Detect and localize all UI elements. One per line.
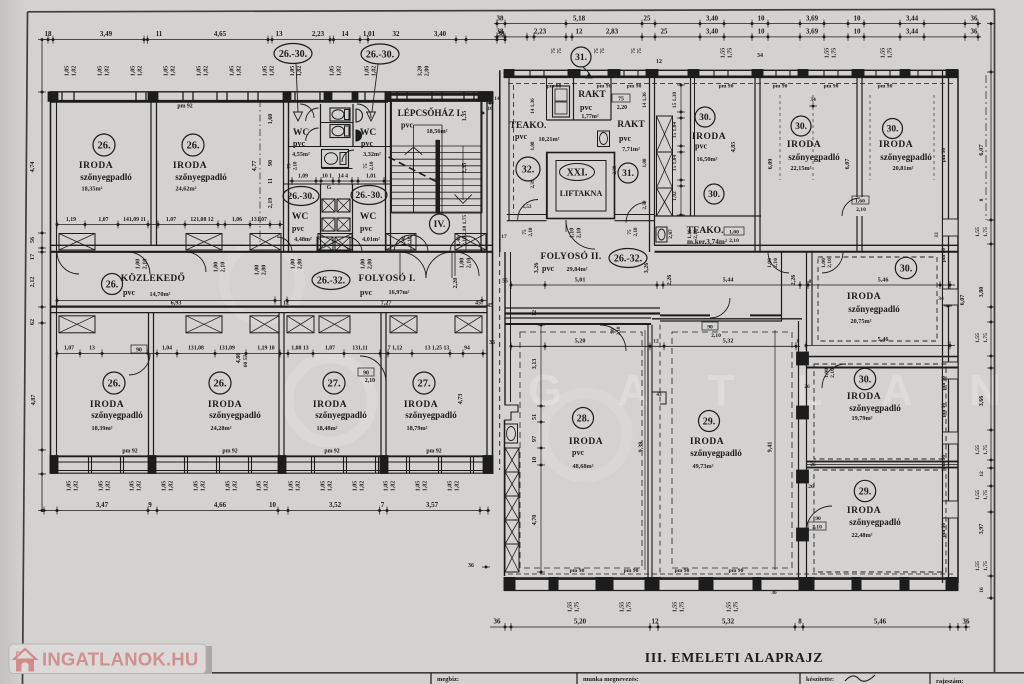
svg-text:1,75: 1,75 bbox=[728, 48, 734, 59]
svg-text:14 4: 14 4 bbox=[338, 174, 348, 180]
svg-text:14: 14 bbox=[342, 30, 350, 38]
svg-text:14,70m²: 14,70m² bbox=[150, 291, 171, 298]
svg-text:1,82: 1,82 bbox=[455, 481, 461, 492]
svg-text:26.-30.: 26.-30. bbox=[366, 49, 395, 60]
svg-text:2,83: 2,83 bbox=[606, 28, 619, 36]
svg-text:5,20: 5,20 bbox=[575, 338, 586, 345]
svg-text:1,00: 1,00 bbox=[291, 259, 297, 270]
svg-text:24,62m²: 24,62m² bbox=[176, 186, 197, 193]
svg-text:2,10: 2,10 bbox=[577, 228, 583, 239]
svg-text:29,84m²: 29,84m² bbox=[567, 266, 588, 273]
left wing outer walls bbox=[50, 91, 493, 93]
svg-text:34: 34 bbox=[810, 97, 816, 103]
svg-text:14 1,36: 14 1,36 bbox=[642, 92, 648, 108]
svg-text:60 57: 60 57 bbox=[243, 355, 249, 368]
svg-text:pm 92: pm 92 bbox=[222, 448, 237, 454]
svg-text:WC: WC bbox=[360, 212, 377, 222]
svg-text:29.: 29. bbox=[703, 416, 716, 427]
svg-text:3,66: 3,66 bbox=[978, 396, 985, 407]
svg-text:1,19 10: 1,19 10 bbox=[257, 346, 274, 352]
svg-text:1,75: 1,75 bbox=[888, 48, 894, 59]
svg-text:131,09: 131,09 bbox=[219, 346, 235, 352]
room number circle IV. bbox=[430, 214, 450, 234]
svg-text:1,82: 1,82 bbox=[237, 66, 243, 77]
svg-text:1,75: 1,75 bbox=[734, 602, 740, 613]
svg-text:1,05: 1,05 bbox=[67, 481, 73, 492]
svg-text:1,05: 1,05 bbox=[263, 66, 269, 77]
room number circle 28. bbox=[573, 408, 594, 429]
svg-text:62: 62 bbox=[29, 319, 36, 325]
svg-text:90: 90 bbox=[707, 325, 713, 331]
svg-text:1,75: 1,75 bbox=[983, 490, 989, 500]
svg-text:pvc: pvc bbox=[360, 224, 372, 233]
svg-text:25: 25 bbox=[661, 28, 669, 36]
svg-text:90: 90 bbox=[267, 160, 274, 166]
svg-text:1,82: 1,82 bbox=[270, 66, 276, 77]
svg-text:8: 8 bbox=[809, 279, 812, 285]
dashdot centerline top right bbox=[985, 75, 987, 220]
svg-text:2,10: 2,10 bbox=[467, 258, 473, 269]
ceiling dashed rect room 20,75 bbox=[818, 257, 937, 341]
rakt side door arc bbox=[626, 203, 646, 223]
corridor divider kozlekedo/folyoso bbox=[280, 252, 282, 307]
svg-text:30.: 30. bbox=[900, 263, 913, 274]
svg-text:1,55: 1,55 bbox=[620, 602, 626, 613]
svg-text:IRODA: IRODA bbox=[404, 400, 438, 410]
svg-text:4,65: 4,65 bbox=[214, 30, 227, 38]
svg-text:1,07: 1,07 bbox=[64, 346, 74, 352]
svg-text:1,05: 1,05 bbox=[99, 481, 105, 492]
svg-text:19,79m²: 19,79m² bbox=[852, 415, 873, 422]
svg-text:36: 36 bbox=[971, 28, 979, 36]
svg-text:1,05: 1,05 bbox=[416, 481, 422, 492]
svg-text:38: 38 bbox=[497, 28, 505, 36]
svg-text:43: 43 bbox=[656, 392, 662, 398]
svg-text:1,00: 1,00 bbox=[214, 262, 220, 273]
svg-text:4,70: 4,70 bbox=[531, 515, 538, 526]
svg-text:pm 90: pm 90 bbox=[719, 84, 734, 90]
svg-text:IV.: IV. bbox=[434, 220, 446, 230]
room number circle 29. bbox=[854, 480, 875, 501]
svg-text:2,80: 2,80 bbox=[368, 259, 374, 270]
bottom drain boxes bbox=[317, 237, 333, 251]
svg-text:2,39: 2,39 bbox=[642, 200, 648, 209]
top rooms dim row bbox=[57, 224, 283, 226]
svg-text:26.-30.: 26.-30. bbox=[279, 49, 308, 60]
svg-text:2,10: 2,10 bbox=[830, 368, 836, 378]
svg-text:1,55: 1,55 bbox=[727, 602, 733, 613]
stair down arrow bbox=[455, 194, 472, 203]
svg-text:RAKT: RAKT bbox=[617, 120, 645, 130]
svg-text:1,05: 1,05 bbox=[65, 66, 71, 77]
svg-text:97: 97 bbox=[531, 436, 538, 442]
ceiling dashed rect room 19,79 bbox=[814, 364, 946, 459]
svg-text:12: 12 bbox=[576, 28, 584, 36]
right wing bottom wall bbox=[504, 577, 958, 580]
svg-text:1,05: 1,05 bbox=[448, 481, 454, 492]
svg-text:1,55: 1,55 bbox=[975, 445, 981, 455]
svg-text:1,82: 1,82 bbox=[264, 481, 270, 492]
svg-text:36: 36 bbox=[971, 15, 979, 23]
svg-text:2,35: 2,35 bbox=[461, 163, 468, 174]
svg-text:1,82: 1,82 bbox=[360, 481, 366, 492]
right wing top wall bbox=[504, 69, 958, 71]
svg-text:2,20: 2,20 bbox=[617, 105, 627, 111]
toilets upper middle stall bbox=[330, 108, 350, 121]
wall 28/29 double bbox=[647, 325, 649, 578]
svg-text:INGATLANOK.HU: INGATLANOK.HU bbox=[42, 649, 198, 670]
svg-text:26: 26 bbox=[810, 462, 816, 468]
svg-text:WC: WC bbox=[292, 212, 309, 222]
svg-text:16,97m²: 16,97m² bbox=[389, 289, 410, 296]
svg-text:IRODA: IRODA bbox=[569, 437, 603, 447]
corridor II bottom wall segment bbox=[660, 314, 710, 316]
svg-text:szőnyegpadló: szőnyegpadló bbox=[315, 410, 367, 420]
svg-text:1,05: 1,05 bbox=[353, 481, 359, 492]
east windows bbox=[943, 219, 959, 236]
svg-text:1,55: 1,55 bbox=[568, 602, 574, 613]
stair hall right wall bbox=[480, 92, 482, 252]
svg-text:pvc: pvc bbox=[619, 134, 631, 143]
svg-text:75: 75 bbox=[600, 48, 606, 54]
svg-text:2,10: 2,10 bbox=[773, 258, 779, 268]
svg-text:1,05: 1,05 bbox=[384, 481, 390, 492]
svg-text:IRODA: IRODA bbox=[847, 292, 881, 302]
svg-text:1,55: 1,55 bbox=[673, 602, 679, 613]
svg-text:32.: 32. bbox=[522, 164, 535, 175]
svg-text:22,15m²: 22,15m² bbox=[791, 165, 812, 172]
svg-text:5,44: 5,44 bbox=[723, 277, 734, 284]
svg-text:1,55: 1,55 bbox=[825, 48, 831, 59]
svg-text:26: 26 bbox=[808, 484, 814, 490]
svg-text:33: 33 bbox=[934, 232, 940, 238]
svg-text:pm 90: pm 90 bbox=[824, 84, 839, 90]
stair double doors to corridor bbox=[394, 235, 411, 252]
svg-text:75: 75 bbox=[618, 97, 624, 103]
svg-text:131,08: 131,08 bbox=[188, 346, 204, 352]
svg-text:1,60: 1,60 bbox=[267, 114, 274, 125]
svg-text:szőnyegpadló: szőnyegpadló bbox=[849, 403, 901, 413]
svg-text:2,10 1,75: 2,10 1,75 bbox=[462, 214, 468, 235]
svg-text:3,26: 3,26 bbox=[533, 263, 540, 274]
callout oval 26.-32. bbox=[609, 249, 647, 268]
svg-text:75: 75 bbox=[557, 48, 563, 54]
svg-text:3,44: 3,44 bbox=[906, 28, 919, 36]
svg-text:IRODA: IRODA bbox=[690, 437, 724, 447]
svg-text:75: 75 bbox=[637, 48, 643, 54]
svg-text:5,46: 5,46 bbox=[874, 618, 887, 626]
svg-text:1,82: 1,82 bbox=[74, 481, 80, 492]
svg-text:34: 34 bbox=[938, 296, 944, 302]
svg-text:4,87: 4,87 bbox=[30, 395, 37, 406]
svg-text:4,86: 4,86 bbox=[235, 353, 242, 364]
svg-text:pm 90: pm 90 bbox=[675, 568, 690, 574]
room number circle 27. bbox=[323, 372, 345, 394]
svg-text:10: 10 bbox=[531, 457, 538, 463]
notch left wall bbox=[505, 405, 519, 420]
svg-text:1,82: 1,82 bbox=[137, 481, 143, 492]
svg-text:pm 90: pm 90 bbox=[878, 84, 893, 90]
svg-text:4,48m²: 4,48m² bbox=[294, 236, 312, 243]
svg-text:30.: 30. bbox=[859, 374, 872, 385]
svg-text:1,82: 1,82 bbox=[169, 481, 175, 492]
svg-text:pm 90: pm 90 bbox=[729, 568, 744, 574]
svg-text:IRODA: IRODA bbox=[879, 140, 913, 150]
right wing right outer wall bbox=[942, 70, 944, 583]
dashed inner face teako bbox=[513, 85, 515, 213]
svg-text:26.: 26. bbox=[213, 379, 227, 390]
svg-text:26.-30.: 26.-30. bbox=[288, 192, 315, 202]
svg-text:2,80: 2,80 bbox=[425, 66, 431, 77]
svg-text:2,10: 2,10 bbox=[856, 207, 866, 213]
svg-text:48,68m²: 48,68m² bbox=[573, 463, 594, 470]
svg-text:36: 36 bbox=[771, 590, 777, 596]
bottom row room divider walls bbox=[148, 313, 150, 456]
svg-text:1,05: 1,05 bbox=[257, 481, 263, 492]
door arc corridor II bbox=[710, 298, 730, 318]
svg-text:2,10: 2,10 bbox=[616, 326, 622, 335]
svg-text:1,82: 1,82 bbox=[138, 66, 144, 77]
right edge vertical dim line bbox=[990, 24, 992, 600]
svg-text:IRODA: IRODA bbox=[90, 400, 124, 410]
svg-text:36: 36 bbox=[494, 618, 502, 626]
svg-text:FOLYOSÓ I.: FOLYOSÓ I. bbox=[358, 272, 415, 284]
room number circle 30. bbox=[695, 107, 715, 127]
logo ingatlanok.hu bbox=[201, 646, 212, 674]
svg-text:27.: 27. bbox=[417, 379, 431, 390]
svg-text:1,05: 1,05 bbox=[330, 66, 336, 77]
leader arrowhead 1 bbox=[294, 112, 303, 121]
svg-text:pm 90: pm 90 bbox=[570, 568, 585, 574]
svg-text:26.-30.: 26.-30. bbox=[356, 191, 383, 201]
svg-text:1,82: 1,82 bbox=[337, 66, 343, 77]
callout oval 26.-30. bbox=[351, 186, 387, 205]
leader arrowhead 2 bbox=[367, 112, 376, 121]
svg-text:1,19: 1,19 bbox=[66, 217, 76, 223]
svg-text:8: 8 bbox=[979, 198, 985, 201]
bottom rooms dim row bbox=[57, 353, 487, 355]
svg-text:2,80: 2,80 bbox=[298, 259, 304, 270]
teako room walls bbox=[546, 153, 548, 220]
svg-text:24,28m²: 24,28m² bbox=[211, 425, 232, 432]
wall 22,15 / 20,81 bbox=[856, 70, 858, 197]
stair up arrow bbox=[405, 147, 422, 154]
corridor top wall bbox=[50, 244, 493, 246]
corridor bottom wall bbox=[50, 306, 487, 308]
svg-text:1,75: 1,75 bbox=[627, 602, 633, 613]
rotated dims room2 bbox=[259, 100, 261, 245]
svg-text:2,20: 2,20 bbox=[452, 278, 459, 289]
svg-text:13: 13 bbox=[89, 346, 95, 352]
dim row y346 right wing bbox=[511, 345, 800, 347]
svg-text:5,01: 5,01 bbox=[575, 277, 586, 284]
svg-text:2,12: 2,12 bbox=[29, 277, 36, 288]
svg-text:1,07: 1,07 bbox=[325, 346, 335, 352]
svg-text:3,69: 3,69 bbox=[806, 15, 819, 23]
svg-text:szőnyegpadló: szőnyegpadló bbox=[690, 448, 742, 458]
svg-text:pm 92: pm 92 bbox=[426, 448, 441, 454]
svg-text:56: 56 bbox=[29, 237, 36, 243]
svg-text:4,77: 4,77 bbox=[251, 161, 258, 172]
svg-text:1,55: 1,55 bbox=[721, 48, 727, 59]
svg-text:2,80: 2,80 bbox=[262, 265, 268, 276]
svg-text:3,57: 3,57 bbox=[426, 501, 439, 509]
doors top of corridor II bbox=[768, 252, 789, 273]
svg-text:pm 90: pm 90 bbox=[941, 248, 947, 263]
svg-text:1,06: 1,06 bbox=[232, 217, 242, 223]
svg-text:1,82: 1,82 bbox=[233, 481, 239, 492]
stair inner well bbox=[413, 125, 415, 213]
svg-text:1,75: 1,75 bbox=[680, 602, 686, 613]
room number circle 26. bbox=[93, 134, 115, 156]
room number circle 29. bbox=[699, 411, 720, 432]
svg-text:2,19: 2,19 bbox=[267, 198, 274, 209]
svg-text:2,26: 2,26 bbox=[790, 275, 797, 286]
svg-text:7,71m²: 7,71m² bbox=[622, 146, 640, 153]
svg-text:141,09 11: 141,09 11 bbox=[123, 217, 146, 223]
svg-text:1,02: 1,02 bbox=[672, 191, 678, 201]
door icon rakt2 bbox=[598, 131, 610, 147]
door room 30 bbox=[822, 364, 846, 388]
left wing bottom wall with windows bbox=[50, 455, 493, 457]
callout oval 26.-30. bbox=[361, 44, 399, 64]
ceiling dashed pm90 bottom bbox=[508, 573, 955, 575]
svg-text:10: 10 bbox=[854, 28, 862, 36]
bottom dim line left wing bbox=[44, 510, 490, 512]
svg-text:szőnyegpadló: szőnyegpadló bbox=[880, 152, 932, 162]
svg-text:51: 51 bbox=[531, 414, 538, 420]
svg-text:3,97: 3,97 bbox=[978, 524, 985, 535]
svg-text:20,75m²: 20,75m² bbox=[851, 318, 872, 325]
half toilet right bbox=[356, 109, 363, 122]
svg-text:pm 90: pm 90 bbox=[597, 84, 612, 90]
svg-text:pm 90: pm 90 bbox=[941, 148, 947, 163]
svg-text:20,81m²: 20,81m² bbox=[893, 165, 914, 172]
svg-text:4,85: 4,85 bbox=[730, 142, 737, 153]
svg-text:1,82: 1,82 bbox=[106, 481, 112, 492]
room number circle 27. bbox=[413, 372, 435, 394]
room number circle 31. bbox=[571, 47, 591, 67]
svg-text:2,10: 2,10 bbox=[369, 161, 375, 170]
svg-text:1,82: 1,82 bbox=[105, 66, 111, 77]
room number circle 30. bbox=[895, 257, 916, 278]
cabinet icon bbox=[553, 86, 570, 117]
stair cut dashed line bbox=[389, 157, 438, 182]
svg-text:2,10: 2,10 bbox=[143, 259, 149, 270]
svg-text:5,32: 5,32 bbox=[723, 338, 734, 345]
wall room 16,50 left bbox=[690, 77, 692, 216]
svg-text:15 1,30: 15 1,30 bbox=[672, 92, 678, 108]
svg-text:26.-32.: 26.-32. bbox=[614, 253, 643, 264]
ceiling dashed rect room 28 bbox=[520, 332, 642, 568]
svg-text:TEAKO.: TEAKO. bbox=[510, 121, 547, 131]
svg-text:3,47: 3,47 bbox=[96, 501, 109, 509]
svg-text:26.: 26. bbox=[186, 141, 200, 152]
svg-text:6,07: 6,07 bbox=[959, 295, 966, 306]
svg-text:5,20: 5,20 bbox=[574, 618, 587, 626]
svg-text:XXI.: XXI. bbox=[567, 168, 588, 179]
svg-text:2,10: 2,10 bbox=[711, 333, 721, 339]
svg-text:szőnyegpadló: szőnyegpadló bbox=[849, 517, 901, 527]
svg-text:2,23: 2,23 bbox=[312, 30, 325, 38]
wall 16,50 / 22,15 bbox=[754, 70, 756, 252]
svg-text:18,56m²: 18,56m² bbox=[427, 128, 448, 135]
svg-text:pm 90: pm 90 bbox=[773, 84, 788, 90]
svg-text:2,10: 2,10 bbox=[693, 229, 699, 239]
svg-text:3,69: 3,69 bbox=[806, 28, 819, 36]
svg-text:szőnyegpadló: szőnyegpadló bbox=[209, 410, 261, 420]
svg-text:1,08: 1,08 bbox=[642, 158, 648, 167]
svg-text:26.: 26. bbox=[107, 379, 121, 390]
svg-text:26.: 26. bbox=[97, 141, 111, 152]
svg-text:90: 90 bbox=[136, 348, 142, 354]
svg-text:9: 9 bbox=[148, 501, 152, 509]
svg-text:30.: 30. bbox=[708, 190, 720, 200]
svg-text:14 1,36: 14 1,36 bbox=[530, 98, 536, 114]
callout oval 26.-30. bbox=[283, 187, 319, 206]
svg-text:3,13: 3,13 bbox=[531, 359, 538, 370]
svg-text:5,46: 5,46 bbox=[878, 336, 889, 343]
svg-text:2,10: 2,10 bbox=[633, 227, 639, 236]
svg-text:1,55: 1,55 bbox=[975, 561, 981, 571]
svg-text:pvc: pvc bbox=[580, 103, 592, 112]
svg-text:1,82: 1,82 bbox=[391, 481, 397, 492]
svg-text:3,40: 3,40 bbox=[706, 28, 719, 36]
svg-text:26: 26 bbox=[804, 384, 810, 390]
svg-text:IRODA: IRODA bbox=[208, 400, 242, 410]
svg-text:17: 17 bbox=[29, 254, 36, 260]
svg-text:1,10: 1,10 bbox=[570, 228, 576, 239]
svg-text:1,00: 1,00 bbox=[361, 259, 367, 270]
svg-text:3,20: 3,20 bbox=[418, 66, 424, 77]
room 30 20,75 bbox=[811, 252, 813, 346]
svg-text:1,05: 1,05 bbox=[162, 481, 168, 492]
svg-text:1,53: 1,53 bbox=[523, 205, 532, 210]
svg-text:munka megnevezés:: munka megnevezés: bbox=[583, 676, 639, 683]
dashed separation line between wings bbox=[499, 252, 501, 470]
svg-text:1,09: 1,09 bbox=[298, 174, 308, 180]
svg-text:pm 90: pm 90 bbox=[624, 568, 639, 574]
svg-text:1,05: 1,05 bbox=[230, 66, 236, 77]
svg-text:2,10: 2,10 bbox=[462, 236, 468, 246]
svg-text:38: 38 bbox=[497, 15, 505, 23]
svg-text:2,39: 2,39 bbox=[612, 165, 618, 174]
svg-text:6,07: 6,07 bbox=[844, 159, 851, 170]
wall room26/26 top row bbox=[150, 101, 152, 245]
room 29 right wall bbox=[798, 321, 800, 578]
svg-text:5,46: 5,46 bbox=[878, 277, 889, 284]
svg-text:T: T bbox=[708, 366, 735, 415]
room number circle 30. bbox=[883, 119, 903, 139]
corridor double doors to stair bbox=[400, 252, 426, 278]
svg-text:11: 11 bbox=[267, 178, 274, 184]
wall below top rooms right wing bbox=[655, 244, 959, 246]
svg-text:3,26: 3,26 bbox=[643, 263, 650, 274]
svg-text:36: 36 bbox=[489, 340, 495, 346]
narrow dim strip bbox=[680, 85, 682, 215]
svg-text:45: 45 bbox=[487, 303, 493, 309]
suspended ceiling dashed line top bbox=[508, 83, 955, 85]
svg-text:9,41: 9,41 bbox=[767, 442, 774, 453]
svg-text:3,40: 3,40 bbox=[706, 15, 719, 23]
fixture oval left bbox=[505, 424, 518, 443]
svg-text:pm 92: pm 92 bbox=[177, 104, 192, 110]
svg-text:pvc: pvc bbox=[360, 288, 372, 297]
svg-text:2,26: 2,26 bbox=[666, 275, 673, 286]
svg-text:1,55: 1,55 bbox=[975, 490, 981, 500]
svg-text:pm 92: pm 92 bbox=[122, 448, 137, 454]
svg-text:1,82: 1,82 bbox=[297, 66, 303, 77]
